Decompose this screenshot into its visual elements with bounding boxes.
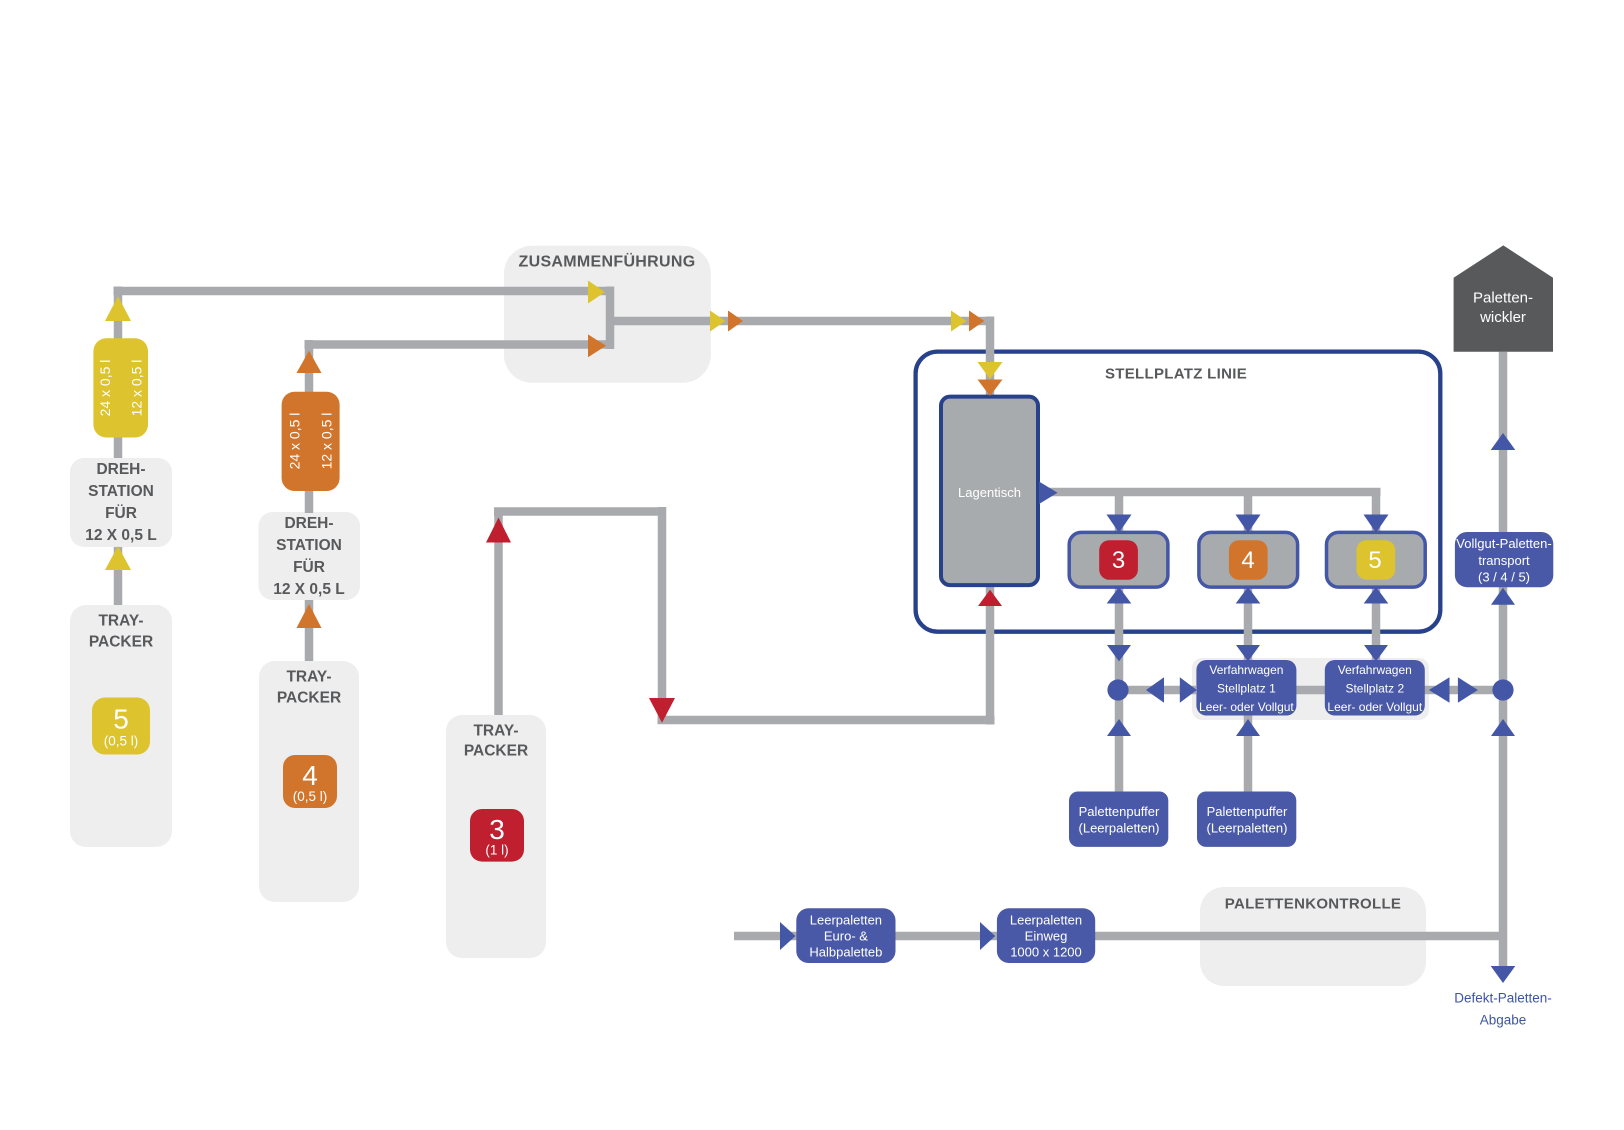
arrow yellow right into merge bbox=[588, 281, 605, 304]
svg-text:FÜR: FÜR bbox=[105, 505, 137, 522]
label Verfahrwagen Stellplatz 1 bbox=[1199, 663, 1294, 714]
svg-text:Leer- oder Vollgut: Leer- oder Vollgut bbox=[1327, 700, 1422, 714]
svg-text:(Leerpaletten): (Leerpaletten) bbox=[1207, 821, 1288, 836]
wires group bbox=[114, 287, 1504, 968]
arrow blue left of right node bbox=[1429, 677, 1450, 702]
svg-text:STATION: STATION bbox=[276, 537, 342, 554]
svg-text:(0,5 l): (0,5 l) bbox=[293, 789, 328, 804]
arrow blue up below stellplatz box5 bbox=[1364, 587, 1389, 604]
arrow yellow down above Lagentisch bbox=[978, 362, 1003, 379]
svg-text:ZUSAMMENFÜHRUNG: ZUSAMMENFÜHRUNG bbox=[519, 252, 696, 271]
wire line5 vertical upper bbox=[114, 287, 123, 459]
arrow orange right into merge bbox=[588, 334, 606, 357]
label Palettenpuffer 1 bbox=[1079, 804, 1160, 836]
svg-text:Einweg: Einweg bbox=[1025, 929, 1068, 944]
arrow red up line3 top bbox=[486, 518, 511, 543]
label Paletten-wickler bbox=[1473, 290, 1533, 327]
arrow yellow up into DREH1 bbox=[105, 546, 131, 570]
box TRAY-PACKER 4 bbox=[259, 661, 359, 902]
svg-text:FÜR: FÜR bbox=[293, 559, 325, 576]
wire node to Verfahrwagen1 bbox=[1118, 686, 1196, 695]
wire merge bar vertical bbox=[606, 287, 615, 350]
svg-text:3: 3 bbox=[1112, 547, 1125, 574]
box Lagentisch bbox=[941, 397, 1038, 585]
box yellow rotated label 24x12 bbox=[93, 338, 148, 437]
arrow blue down below border line5 bbox=[1364, 645, 1388, 661]
svg-text:12 x 0,5 l: 12 x 0,5 l bbox=[319, 413, 335, 470]
svg-text:STELLPLATZ LINIE: STELLPLATZ LINIE bbox=[1105, 366, 1247, 383]
svg-text:DREH-: DREH- bbox=[284, 515, 333, 532]
svg-text:12 X 0,5 L: 12 X 0,5 L bbox=[273, 581, 345, 598]
svg-text:PACKER: PACKER bbox=[89, 634, 153, 651]
box Leerpaletten Euro bbox=[796, 908, 895, 963]
label Vollgut-Paletten-transport bbox=[1456, 536, 1551, 585]
svg-text:Leerpaletten: Leerpaletten bbox=[810, 913, 882, 928]
arrow blue right into Euro box bbox=[780, 922, 796, 950]
wire drop to stellplatz box 3 bbox=[1115, 492, 1124, 533]
wire line3 middle vertical bbox=[658, 507, 667, 720]
label DREH-STATION 1 bbox=[85, 461, 157, 544]
box TRAY-PACKER 3 bbox=[446, 715, 546, 958]
svg-text:PACKER: PACKER bbox=[464, 743, 528, 760]
svg-text:Euro- &: Euro- & bbox=[824, 929, 868, 944]
label Verfahrwagen Stellplatz 2 bbox=[1327, 663, 1422, 714]
box Verfahrwagen Stellplatz 1 bbox=[1196, 660, 1296, 716]
label TRAY-PACKER 5 bbox=[89, 613, 153, 651]
svg-text:Verfahrwagen: Verfahrwagen bbox=[1209, 663, 1283, 677]
svg-text:Defekt-Paletten-: Defekt-Paletten- bbox=[1454, 991, 1552, 1006]
arrow blue up toward left node bbox=[1107, 719, 1131, 736]
label Defekt-Paletten-Abgabe bbox=[1454, 991, 1552, 1028]
wire line4 horizontal bbox=[305, 340, 608, 349]
arrow blue left of Verfahrwagen1 bbox=[1146, 677, 1164, 702]
label Palettenpuffer 2 bbox=[1207, 804, 1288, 836]
wire line5 vertical lower bbox=[114, 547, 123, 605]
svg-text:12 x 0,5 l: 12 x 0,5 l bbox=[129, 360, 145, 417]
box DREH-STATION 1 bbox=[70, 458, 172, 547]
svg-text:STATION: STATION bbox=[88, 483, 154, 500]
box Verfahrwagen Stellplatz 2 bbox=[1325, 660, 1425, 716]
arrow blue down below border line4 bbox=[1236, 645, 1260, 661]
arrow blue right into Verfahrwagen1 bbox=[1180, 677, 1197, 702]
badge orange 4 in stellplatz bbox=[1229, 540, 1268, 580]
house Paletten-wickler bbox=[1454, 245, 1553, 351]
arrow red down line3 middle bbox=[649, 698, 675, 723]
svg-text:TRAY-: TRAY- bbox=[98, 613, 143, 630]
svg-text:3: 3 bbox=[489, 814, 505, 845]
svg-text:5: 5 bbox=[113, 704, 129, 735]
wire right vertical main bbox=[1499, 352, 1508, 967]
arrow red up into Lagentisch bottom bbox=[978, 590, 1002, 606]
badge yellow 5 in stellplatz bbox=[1357, 540, 1396, 580]
box Vollgut-Paletten-transport bbox=[1455, 532, 1553, 587]
svg-text:(1 l): (1 l) bbox=[485, 843, 508, 858]
svg-text:TRAY-: TRAY- bbox=[473, 723, 518, 740]
wire stellplatz box4 down to Verfahrwagen1 bbox=[1244, 585, 1253, 660]
svg-text:Leerpaletten: Leerpaletten bbox=[1010, 913, 1082, 928]
arrow orange up into DREH2 bbox=[297, 604, 322, 628]
arrow yellow chevron mid line bbox=[710, 311, 725, 332]
svg-text:12 X 0,5 L: 12 X 0,5 L bbox=[85, 527, 157, 544]
svg-text:Abgabe: Abgabe bbox=[1480, 1013, 1527, 1028]
box orange rotated label 24x12 bbox=[282, 392, 340, 491]
svg-text:Leer- oder Vollgut: Leer- oder Vollgut bbox=[1199, 700, 1294, 714]
arrow yellow up into top line bbox=[105, 296, 131, 321]
wire line5 top horizontal bbox=[114, 287, 608, 296]
arrow blue up into Vollgut box bbox=[1491, 588, 1515, 605]
box Palettenpuffer 2 bbox=[1197, 792, 1296, 847]
badge orange 4 in tray-packer bbox=[283, 755, 337, 808]
badge red 3 in stellplatz bbox=[1099, 540, 1138, 580]
wire line4 vertical upper bbox=[305, 340, 314, 513]
arrow orange chevron before corner bbox=[969, 311, 984, 332]
wire line3 top horizontal bbox=[494, 507, 662, 516]
arrow blue up below stellplatz box4 bbox=[1236, 587, 1261, 604]
arrow orange up into line4 corner bbox=[297, 351, 322, 373]
svg-text:Palettenpuffer: Palettenpuffer bbox=[1079, 804, 1160, 819]
svg-text:Verfahrwagen: Verfahrwagen bbox=[1338, 663, 1412, 677]
panel ZUSAMMENFUEHRUNG background bbox=[504, 246, 711, 383]
svg-text:Palettenpuffer: Palettenpuffer bbox=[1207, 804, 1288, 819]
svg-text:transport: transport bbox=[1478, 553, 1530, 568]
svg-text:(0,5 l): (0,5 l) bbox=[104, 734, 139, 749]
wire stellplatz box5 down to Verfahrwagen2 bbox=[1372, 585, 1381, 660]
svg-text:Stellplatz 2: Stellplatz 2 bbox=[1345, 682, 1404, 696]
svg-text:(Leerpaletten): (Leerpaletten) bbox=[1079, 821, 1160, 836]
wire line3 bottom horizontal bbox=[658, 716, 995, 725]
panel PALETTENKONTROLLE background bbox=[1200, 887, 1426, 986]
box Leerpaletten Einweg bbox=[997, 908, 1095, 963]
svg-text:24 x 0,5 l: 24 x 0,5 l bbox=[97, 360, 113, 417]
label TRAY-PACKER 4 bbox=[277, 669, 341, 707]
label DREH-STATION 2 bbox=[273, 515, 345, 598]
wire drop to stellplatz box 4 bbox=[1244, 492, 1253, 533]
wire Verfahrwagen2 to right node bbox=[1424, 686, 1497, 695]
wire Verfahrwagen1 to Palettenpuffer2 bbox=[1244, 716, 1253, 793]
svg-text:24 x 0,5 l: 24 x 0,5 l bbox=[287, 413, 303, 470]
wire node to Palettenpuffer1 bbox=[1115, 691, 1124, 792]
arrow orange chevron mid line bbox=[728, 311, 743, 332]
label Leerpaletten Euro bbox=[809, 913, 882, 960]
svg-text:1000 x 1200: 1000 x 1200 bbox=[1010, 945, 1082, 960]
arrow blue up toward right node bbox=[1491, 719, 1515, 736]
arrow blue down Defekt bbox=[1491, 966, 1516, 983]
wire line3 up to Lagentisch bbox=[986, 585, 995, 725]
label Leerpaletten Einweg bbox=[1010, 913, 1082, 960]
svg-text:wickler: wickler bbox=[1479, 309, 1526, 326]
node right junction circle bbox=[1492, 679, 1513, 700]
wire bottom pallet line bbox=[734, 932, 1503, 941]
border STELLPLATZ LINIE bbox=[916, 352, 1441, 632]
panel Verfahrwagen background bbox=[1192, 658, 1429, 720]
box stellplatz 4 bbox=[1199, 532, 1298, 587]
node left junction circle bbox=[1107, 679, 1128, 700]
svg-text:4: 4 bbox=[302, 760, 318, 791]
svg-text:Stellplatz 1: Stellplatz 1 bbox=[1217, 682, 1276, 696]
box TRAY-PACKER 5 bbox=[70, 605, 172, 847]
arrow blue up toward Palettenwickler bbox=[1491, 433, 1516, 450]
arrow blue down into stellplatz box4 bbox=[1236, 515, 1261, 533]
svg-text:PALETTENKONTROLLE: PALETTENKONTROLLE bbox=[1225, 896, 1401, 913]
arrow blue up toward Verfahrwagen1 bbox=[1236, 719, 1260, 736]
svg-text:(3 / 4 / 5): (3 / 4 / 5) bbox=[1478, 570, 1530, 585]
arrow blue down below border line3 bbox=[1107, 645, 1131, 661]
arrow blue right out of Lagentisch bbox=[1039, 482, 1058, 505]
wire main line horizontal bbox=[610, 317, 990, 326]
box Palettenpuffer 1 bbox=[1069, 792, 1168, 847]
wire Verfahrwagen1 to Verfahrwagen2 bbox=[1296, 686, 1325, 695]
wire line3 riser bbox=[494, 512, 503, 716]
badge yellow 5 in tray-packer bbox=[92, 698, 150, 755]
arrow blue up below stellplatz box3 bbox=[1107, 587, 1132, 604]
arrow blue right into Einweg box bbox=[980, 922, 995, 950]
arrow blue down into stellplatz box3 bbox=[1107, 515, 1132, 533]
box stellplatz 5 bbox=[1327, 532, 1426, 587]
wire drop to stellplatz box 5 bbox=[1372, 492, 1381, 533]
svg-text:Halbpaletteb: Halbpaletteb bbox=[809, 945, 882, 960]
svg-text:PACKER: PACKER bbox=[277, 690, 341, 707]
svg-text:DREH-: DREH- bbox=[96, 461, 145, 478]
svg-text:Lagentisch: Lagentisch bbox=[958, 485, 1021, 500]
svg-text:5: 5 bbox=[1368, 547, 1381, 574]
wire stellplatz box3 down to node bbox=[1115, 585, 1124, 691]
wire main line drop to Lagentisch bbox=[986, 317, 995, 397]
label TRAY-PACKER 3 bbox=[464, 723, 528, 760]
box DREH-STATION 2 bbox=[259, 512, 361, 600]
arrow orange down above Lagentisch bbox=[978, 380, 1003, 397]
wire line4 vertical lower bbox=[305, 600, 314, 661]
arrow blue down into stellplatz box5 bbox=[1364, 515, 1389, 533]
svg-text:Vollgut-Paletten-: Vollgut-Paletten- bbox=[1456, 536, 1551, 551]
svg-text:4: 4 bbox=[1241, 547, 1254, 574]
box stellplatz 3 bbox=[1069, 532, 1168, 587]
wire Lagentisch distribution horizontal bbox=[1038, 488, 1381, 497]
svg-text:Paletten-: Paletten- bbox=[1473, 290, 1533, 307]
badge red 3 in tray-packer bbox=[470, 809, 524, 862]
svg-text:TRAY-: TRAY- bbox=[286, 669, 331, 686]
arrow blue right toward right node bbox=[1458, 677, 1478, 702]
arrow yellow chevron before corner bbox=[951, 311, 966, 332]
